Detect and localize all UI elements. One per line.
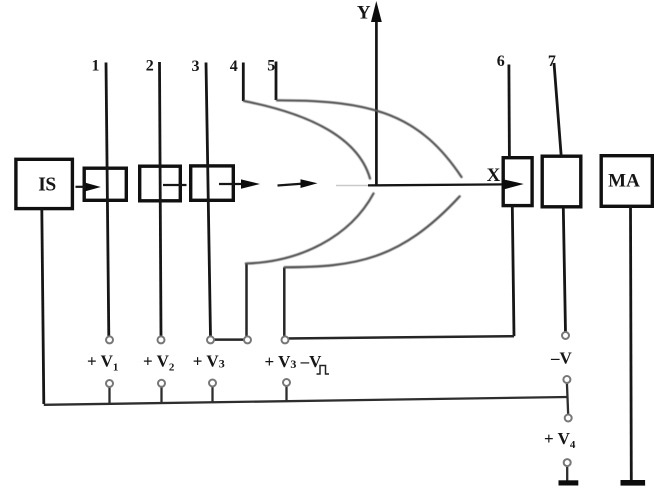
svg-text:+ V4: + V4	[544, 429, 576, 451]
svg-text:X: X	[487, 165, 501, 186]
svg-text:–V: –V	[550, 349, 573, 368]
svg-text:4: 4	[230, 58, 238, 75]
svg-text:+ V3 –V: + V3 –V	[265, 352, 323, 371]
svg-text:2: 2	[146, 58, 154, 75]
svg-text:1: 1	[92, 58, 100, 75]
svg-text:3: 3	[192, 58, 200, 75]
svg-text:5: 5	[267, 58, 275, 75]
svg-text:+ V3: + V3	[193, 352, 225, 371]
svg-text:+ V1: + V1	[87, 352, 118, 374]
svg-text:MA: MA	[608, 171, 640, 192]
svg-text:+ V2: + V2	[143, 352, 175, 374]
svg-text:Y: Y	[357, 3, 371, 24]
svg-text:IS: IS	[38, 175, 56, 196]
svg-text:7: 7	[548, 53, 556, 70]
svg-text:6: 6	[497, 53, 505, 70]
